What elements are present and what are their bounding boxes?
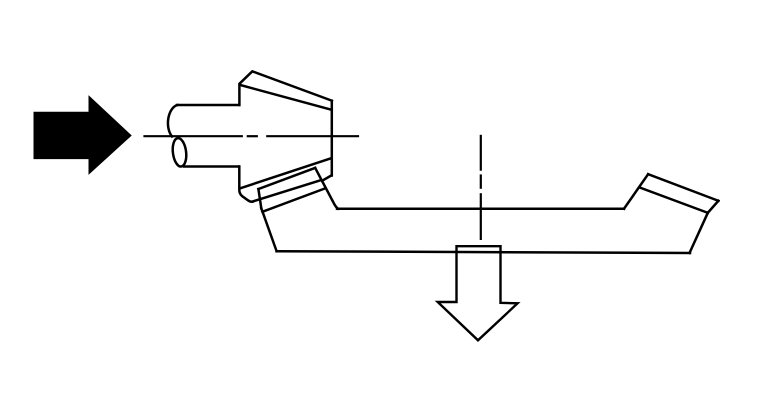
collar left edge (258, 189, 261, 208)
spout neck left edge (261, 208, 276, 251)
supply pipe top line (177, 104, 239, 107)
spout tip right short edge (708, 201, 719, 213)
supply pipe end-face oval (171, 137, 188, 167)
horizontal centerline (dash-dot) (145, 135, 359, 137)
flow-in arrow (solid black, pointing right) (34, 96, 131, 174)
spout body top line (337, 207, 624, 210)
valve cone right vertical (331, 101, 334, 176)
supply pipe bottom line (184, 165, 239, 168)
vertical centerline (dash-dot) (480, 136, 482, 239)
supply pipe left end arc (168, 105, 178, 137)
spout body bottom line (277, 251, 690, 253)
valve cone inner chamfer line (240, 85, 330, 110)
spout tip inner end line (641, 188, 708, 213)
collar top edge (258, 168, 315, 189)
valve cone left vertical (lower) with corner diagonal (239, 167, 253, 202)
cone bottom band lower line L2 (253, 180, 321, 201)
spout tip rising edge (624, 174, 648, 209)
spout tip lower right edge (690, 213, 708, 253)
spout tip outer end line (648, 174, 718, 201)
spout neck right edge (315, 168, 338, 209)
valve cone left vertical (upper) (239, 71, 332, 105)
outlet flow arrow (hollow, pointing down) (438, 246, 518, 340)
cone bottom band upper line L1 (241, 159, 331, 189)
collar bottom edge (262, 188, 325, 212)
valve cone right vertical bottom stub (322, 176, 331, 181)
